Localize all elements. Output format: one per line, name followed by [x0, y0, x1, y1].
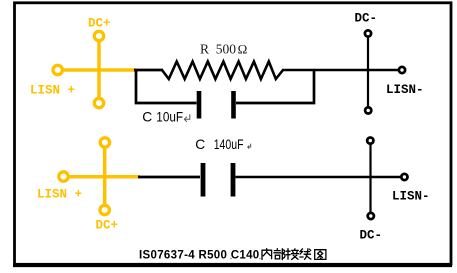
- svg-text:DC-: DC-: [355, 12, 378, 26]
- svg-text:C: C: [195, 137, 205, 152]
- resistor R 500ohm zigzag: [162, 62, 283, 80]
- svg-text:LISN +: LISN +: [30, 84, 75, 98]
- svg-text:140uF: 140uF: [214, 137, 244, 152]
- svg-text:C: C: [142, 110, 152, 125]
- connector J1 LISN+ (top left cross): [53, 31, 104, 107]
- wire: node to capacitor C2, black: [138, 176, 200, 179]
- wire: right plate of C1 back up to top net: [236, 69, 314, 103]
- connector J4 LISN- (bottom right cross): [367, 138, 407, 220]
- svg-text:Ω: Ω: [238, 42, 248, 57]
- svg-text:DC+: DC+: [96, 219, 119, 233]
- svg-text:R 500: R 500: [200, 42, 236, 57]
- wire: resistor to LISN- connector: [282, 69, 399, 71]
- caption CJK: 内部接线图 drawn as strokes: [262, 249, 326, 260]
- tiny mark after C140: [259, 258, 261, 260]
- char 接: [286, 249, 298, 260]
- connector J2 LISN- (top right cross): [365, 30, 405, 113]
- char 内: [262, 249, 272, 260]
- pilcrow return mark after C 10uF: [184, 114, 189, 122]
- char 线: [300, 249, 311, 260]
- char 部: [274, 249, 285, 260]
- char 图: [315, 250, 326, 260]
- svg-text:LISN-: LISN-: [392, 190, 430, 204]
- capacitor C2 140uF plates: [203, 163, 233, 197]
- capacitor C1 10uF plates: [199, 91, 234, 119]
- svg-text:10uF: 10uF: [156, 110, 183, 125]
- connector J3 LISN+ (bottom left cross): [59, 138, 110, 215]
- wire: C2 to LISN- connector: [236, 176, 404, 178]
- pilcrow return mark after C 140uF: [248, 144, 251, 149]
- svg-text:LISN-: LISN-: [386, 83, 424, 97]
- svg-text:DC+: DC+: [88, 17, 111, 31]
- wire: left branch down to C1: [136, 69, 197, 103]
- wire: node to resistor, black: [134, 69, 163, 72]
- tiny spellcheck dot after R500: [230, 258, 232, 260]
- svg-text:LISN +: LISN +: [37, 188, 82, 202]
- wire: bottom net, yellow segment from LISN+ connector: [64, 175, 141, 179]
- wire: top net, yellow segment from LISN+ connector to node: [58, 68, 136, 72]
- svg-text:IS07637-4 R500 C140: IS07637-4 R500 C140: [139, 250, 260, 262]
- svg-text:DC-: DC-: [360, 229, 383, 243]
